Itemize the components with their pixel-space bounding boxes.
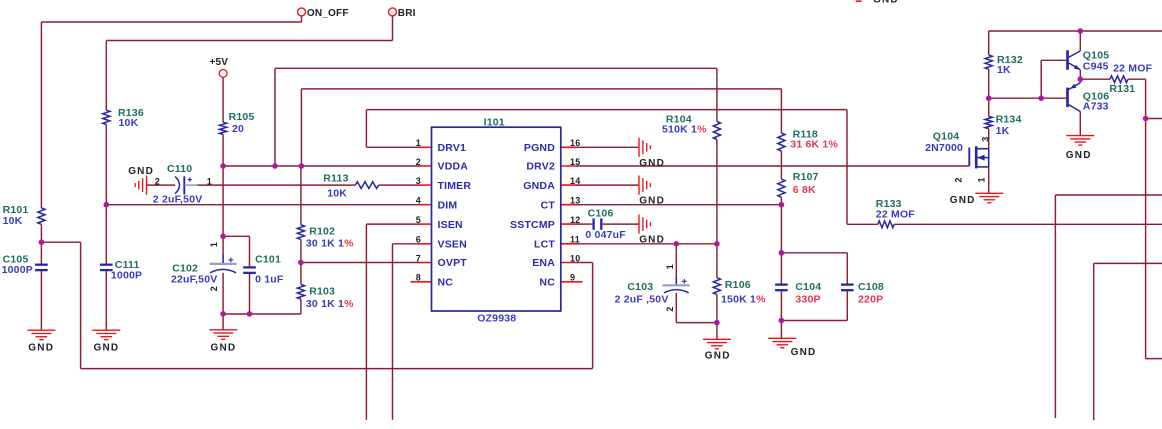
svg-text:Q104: Q104 [933, 131, 960, 143]
svg-text:1: 1 [977, 177, 987, 182]
svg-text:150K 1%: 150K 1% [721, 294, 766, 306]
svg-text:1: 1 [665, 264, 675, 269]
svg-text:330P: 330P [795, 294, 820, 306]
svg-text:DRV1: DRV1 [438, 142, 467, 154]
svg-text:GND: GND [873, 0, 899, 5]
svg-text:5: 5 [416, 215, 421, 225]
svg-text:2: 2 [953, 177, 963, 182]
svg-text:30 1K 1%: 30 1K 1% [306, 237, 354, 249]
svg-text:16: 16 [570, 138, 580, 148]
svg-text:7: 7 [416, 253, 421, 263]
svg-text:DRV2: DRV2 [526, 161, 555, 173]
svg-text:R107: R107 [793, 171, 819, 183]
svg-text:GND: GND [1066, 150, 1092, 161]
svg-text:2: 2 [209, 286, 219, 291]
svg-text:8: 8 [416, 273, 421, 283]
svg-text:1: 1 [416, 138, 421, 148]
svg-text:22uF,50V: 22uF,50V [171, 274, 218, 286]
svg-text:R113: R113 [323, 173, 348, 185]
svg-text:BRI: BRI [398, 8, 416, 19]
svg-text:GND: GND [639, 158, 665, 169]
svg-text:10K: 10K [3, 215, 23, 227]
svg-text:DIM: DIM [438, 199, 458, 211]
svg-text:CT: CT [541, 199, 556, 211]
svg-text:2 2uF ,50V: 2 2uF ,50V [615, 294, 669, 306]
svg-text:GND: GND [94, 342, 120, 353]
svg-text:30 1K 1%: 30 1K 1% [306, 298, 354, 310]
svg-text:2N7000: 2N7000 [925, 142, 963, 154]
svg-text:1K: 1K [996, 125, 1010, 137]
svg-text:C104: C104 [795, 281, 821, 293]
svg-text:C108: C108 [858, 281, 884, 293]
svg-text:GNDA: GNDA [523, 180, 555, 192]
svg-text:6 8K: 6 8K [793, 184, 816, 196]
svg-text:510K 1%: 510K 1% [662, 124, 707, 136]
svg-text:GND: GND [128, 166, 154, 177]
svg-text:NC: NC [539, 277, 555, 289]
svg-text:R105: R105 [229, 111, 255, 123]
svg-text:1000P: 1000P [111, 270, 142, 282]
svg-text:VSEN: VSEN [438, 239, 467, 251]
svg-text:NC: NC [438, 277, 454, 289]
svg-text:2 2uF,50V: 2 2uF,50V [153, 194, 203, 206]
svg-text:R103: R103 [309, 286, 335, 298]
svg-text:2: 2 [665, 306, 675, 311]
svg-text:R106: R106 [725, 279, 751, 291]
svg-text:22 MOF: 22 MOF [876, 209, 916, 221]
svg-text:+5V: +5V [210, 57, 229, 68]
svg-text:6: 6 [416, 235, 421, 245]
svg-text:GND: GND [950, 195, 976, 206]
svg-text:C110: C110 [167, 163, 192, 175]
svg-text:A733: A733 [1083, 101, 1109, 113]
svg-text:R134: R134 [996, 114, 1022, 126]
svg-text:1000P: 1000P [2, 264, 33, 276]
svg-text:I101: I101 [484, 116, 505, 128]
svg-text:2: 2 [416, 157, 421, 167]
svg-text:OVPT: OVPT [438, 257, 468, 269]
svg-text:C101: C101 [255, 253, 281, 265]
svg-text:GND: GND [28, 342, 54, 353]
svg-text:ENA: ENA [532, 257, 555, 269]
svg-text:GND: GND [211, 342, 237, 353]
svg-text:2: 2 [155, 176, 160, 186]
svg-text:GND: GND [791, 347, 817, 358]
svg-text:PGND: PGND [524, 142, 555, 154]
svg-text:10K: 10K [327, 188, 347, 200]
svg-text:VDDA: VDDA [438, 161, 469, 173]
svg-text:10K: 10K [119, 117, 139, 129]
svg-text:TIMER: TIMER [438, 180, 472, 192]
svg-text:ISEN: ISEN [438, 219, 463, 231]
svg-text:9: 9 [570, 273, 575, 283]
svg-text:31 6K 1%: 31 6K 1% [790, 138, 838, 150]
svg-text:GND: GND [639, 235, 665, 246]
svg-text:C103: C103 [627, 281, 653, 293]
svg-text:R131: R131 [1109, 83, 1135, 95]
svg-text:GND: GND [639, 196, 665, 207]
svg-text:0 047uF: 0 047uF [585, 229, 626, 241]
svg-text:4: 4 [416, 196, 421, 206]
svg-text:0 1uF: 0 1uF [255, 274, 284, 286]
svg-text:C106: C106 [588, 207, 614, 219]
svg-text:14: 14 [570, 176, 580, 186]
svg-text:12: 12 [570, 215, 580, 225]
svg-text:13: 13 [570, 196, 580, 206]
svg-text:10: 10 [570, 253, 580, 263]
svg-text:GND: GND [705, 350, 731, 361]
svg-text:22 MOF: 22 MOF [1113, 63, 1153, 75]
svg-text:SSTCMP: SSTCMP [510, 219, 555, 231]
svg-text:Q105: Q105 [1083, 49, 1110, 61]
svg-text:1: 1 [209, 242, 219, 247]
svg-text:1K: 1K [997, 64, 1011, 76]
svg-text:220P: 220P [858, 294, 883, 306]
svg-text:OZ9938: OZ9938 [477, 313, 516, 325]
svg-text:11: 11 [570, 235, 580, 245]
svg-text:15: 15 [570, 157, 580, 167]
svg-text:LCT: LCT [534, 239, 555, 251]
svg-text:3: 3 [416, 176, 421, 186]
svg-text:R102: R102 [309, 225, 335, 237]
svg-text:C945: C945 [1083, 61, 1109, 73]
svg-text:ON_OFF: ON_OFF [307, 8, 349, 19]
svg-text:1: 1 [207, 176, 212, 186]
svg-text:3: 3 [980, 136, 990, 141]
svg-text:20: 20 [232, 123, 244, 135]
